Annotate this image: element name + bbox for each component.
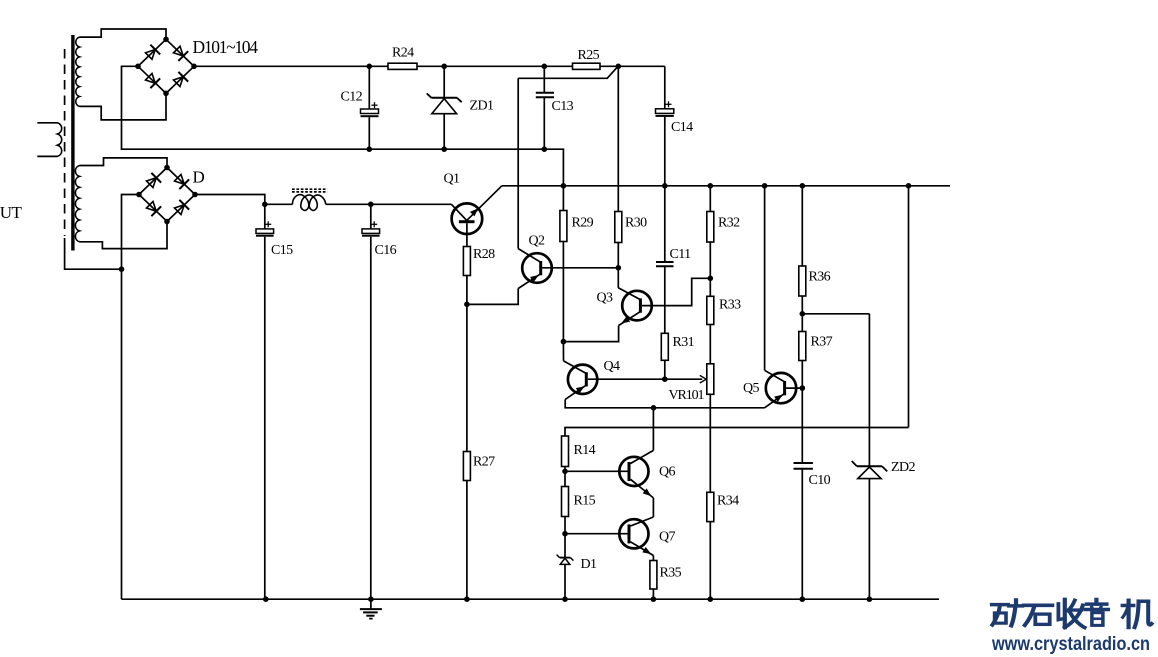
wire R35 to ground rail — [652, 589, 654, 599]
diode D103 (bottom-left) — [145, 73, 160, 88]
label R25 — [578, 48, 600, 63]
svg-text:Q3: Q3 — [597, 291, 614, 306]
wire Q3 emitter — [563, 326, 618, 342]
svg-text:Q4: Q4 — [604, 359, 621, 374]
transformer shield dashed line — [64, 49, 66, 236]
svg-text:Q1: Q1 — [444, 172, 461, 187]
label C14 — [671, 120, 693, 135]
capacitor C10 — [794, 463, 813, 599]
svg-text:C16: C16 — [375, 243, 397, 258]
label Q7 — [659, 530, 676, 545]
label D101~104 — [193, 37, 259, 57]
watermark char ji — [1123, 600, 1152, 627]
capacitor C12 — [361, 66, 379, 149]
wire R30 to Q2 base node — [617, 243, 619, 268]
wire bridge2 negative column — [122, 195, 140, 600]
capacitor C13 — [536, 66, 554, 149]
watermark char shi — [1024, 605, 1052, 625]
diode D1 — [557, 534, 574, 600]
resistor R28 — [463, 247, 470, 276]
wire ground rail — [122, 598, 940, 600]
wire R14 feed y427 — [565, 428, 909, 437]
wire Q6 collector — [652, 408, 654, 451]
node ground rail x370.9 — [368, 596, 374, 602]
wire R34 to ground rail — [709, 522, 711, 600]
node rail R36 junction — [800, 183, 806, 189]
node shield-ground junction — [119, 266, 125, 272]
svg-text:R36: R36 — [809, 270, 831, 285]
svg-text:R15: R15 — [574, 494, 596, 509]
svg-text:R27: R27 — [473, 455, 495, 470]
wire R29 to node341 — [562, 242, 564, 342]
transistor Q1 — [451, 186, 501, 247]
node rail R32 junction — [708, 183, 714, 189]
label Q3 — [597, 291, 614, 306]
label R28 — [473, 247, 495, 262]
node C13 bottom — [542, 146, 548, 152]
svg-text:ZD2: ZD2 — [891, 460, 915, 475]
resistor R34 — [707, 492, 714, 521]
wire node to C10 — [801, 388, 803, 463]
wire choke to Q1 base — [326, 203, 452, 205]
wire Q7 emitter to R35 — [652, 556, 654, 561]
label R35 — [660, 566, 682, 581]
wire bridge1 negative: left vertex to y149 rail then down to main rail — [122, 66, 564, 186]
svg-text:R28: R28 — [473, 247, 495, 262]
svg-text:OUT: OUT — [0, 203, 23, 222]
capacitor C14 — [656, 66, 674, 186]
node R36/R37/ZD2 — [800, 311, 806, 317]
label Q2 — [529, 234, 546, 249]
wire top positive rail y66 — [194, 65, 665, 67]
node C15 top — [262, 202, 268, 208]
resistor R35 — [650, 561, 657, 590]
node Q6-collector tap — [651, 405, 657, 411]
wire Q4 emitter — [565, 399, 764, 407]
label VR101 — [669, 388, 705, 403]
resistor R37 — [799, 332, 806, 361]
capacitor C15 — [256, 204, 274, 599]
label R31 — [673, 335, 695, 350]
wire rail to R32 — [709, 186, 711, 212]
wire R37 to Q5 base node — [801, 361, 803, 389]
label R27 — [473, 455, 495, 470]
svg-text:Q6: Q6 — [659, 465, 676, 480]
label R30 — [625, 216, 647, 231]
label ZD1 — [470, 99, 494, 114]
label Q4 — [604, 359, 621, 374]
node bridge2 R — [192, 192, 198, 198]
node bridge2 B — [164, 219, 170, 225]
potentiometer VR101 — [707, 364, 714, 395]
capacitor C11 — [656, 186, 674, 333]
diode D102 (top-right) — [173, 46, 188, 61]
svg-text:R35: R35 — [660, 566, 682, 581]
node R32/R33/Q3-base — [708, 276, 714, 282]
wire rail to R36 — [801, 186, 803, 266]
resistor R33 — [707, 296, 714, 324]
resistor R31 — [661, 333, 668, 360]
label R33 — [719, 298, 741, 313]
label C16 — [375, 243, 397, 258]
diode D-d (bottom-right) — [174, 200, 189, 215]
node C12 bottom — [367, 146, 373, 152]
label Q5 — [743, 381, 760, 396]
svg-text:C15: C15 — [271, 243, 293, 258]
label R15 — [574, 494, 596, 509]
node rail right-column junction — [906, 183, 912, 189]
label D — [193, 168, 205, 187]
inductor choke L1 — [292, 195, 325, 211]
wire Q4 collector — [562, 342, 564, 361]
resistor R29 — [560, 211, 567, 242]
wire R31 to Q4 base node — [664, 360, 666, 379]
resistor R14 — [562, 436, 569, 467]
svg-text:D1: D1 — [581, 557, 598, 572]
label Q1 — [444, 172, 461, 187]
svg-text:R32: R32 — [718, 216, 740, 231]
svg-text:C10: C10 — [809, 473, 831, 488]
svg-text:R34: R34 — [717, 494, 739, 509]
node bridge1 R — [191, 64, 197, 70]
svg-text:R31: R31 — [673, 335, 695, 350]
node R29/Q3-emitter/Q4-collector — [561, 339, 567, 345]
transistor Q3 — [618, 288, 652, 326]
label C12 — [341, 90, 363, 105]
svg-text:R25: R25 — [578, 48, 600, 63]
watermark url text — [991, 634, 1150, 655]
transformer primary winding — [37, 123, 61, 157]
node Q4-base/R31/VR101-wiper — [662, 376, 668, 382]
watermark char kuang — [992, 600, 1022, 626]
resistor R24 — [388, 63, 417, 69]
node top wire C12 tap — [367, 64, 373, 70]
label R34 — [717, 494, 739, 509]
node bridge1 Lv — [135, 64, 141, 70]
transistor Q6 — [619, 450, 653, 498]
diode D-c (bottom-left) — [146, 201, 161, 216]
wire node to R15 — [564, 471, 566, 486]
wire node to R33 — [709, 278, 711, 296]
node ground rail x466.9 — [464, 596, 470, 602]
node R25 right junction — [616, 64, 622, 70]
resistor R30 — [615, 212, 622, 243]
ground symbol — [360, 599, 382, 618]
wire Q7 base — [565, 533, 628, 535]
svg-text:Q7: Q7 — [659, 530, 676, 545]
wire VR101 to R34 — [709, 394, 711, 492]
svg-text:R29: R29 — [572, 216, 594, 231]
wire R27 to ground rail — [466, 481, 468, 600]
resistor R15 — [562, 487, 569, 517]
wire C15 to choke — [265, 203, 293, 205]
node ground rail x265.8 — [263, 596, 269, 602]
diode D-b (top-right) — [174, 174, 189, 189]
node Q5-base/R37/C10 — [800, 385, 806, 391]
wire main rail y186 — [502, 185, 950, 187]
inductor choke core dashes — [292, 189, 327, 192]
diode D104 (bottom-right) — [173, 72, 188, 87]
svg-text:R30: R30 — [625, 216, 647, 231]
diode D-a (top-left) — [146, 173, 161, 188]
svg-text:www.crystalradio.cn: www.crystalradio.cn — [991, 634, 1150, 655]
node ground rail x710.3 — [708, 596, 714, 602]
wire Q2 base — [542, 267, 618, 269]
wire Q4 base — [588, 378, 665, 380]
wire Q5 collector column — [764, 186, 766, 370]
node top wire ZD1 tap — [441, 64, 447, 70]
svg-text:C12: C12 — [341, 90, 363, 105]
label R29 — [572, 216, 594, 231]
transistor Q5 — [765, 370, 797, 408]
svg-text:C11: C11 — [670, 247, 692, 262]
transformer secondary winding (top) — [76, 29, 166, 120]
label R37 — [811, 335, 833, 350]
watermark char shou — [1058, 599, 1084, 627]
wire Q6 base — [565, 470, 628, 472]
wire bridge2 output to C15 — [195, 195, 265, 205]
node ground rail x802.3 — [800, 596, 806, 602]
label C10 — [809, 473, 831, 488]
wire Q6 emitter to Q7 collector — [652, 498, 654, 517]
wire node to Q3 collector corner — [617, 268, 619, 288]
svg-text:C14: C14 — [671, 120, 693, 135]
label D1 — [581, 557, 598, 572]
label R24 — [392, 46, 414, 61]
wire down to R27 — [466, 304, 468, 451]
wire Q2-collector feed y78 — [518, 67, 618, 79]
svg-text:Q5: Q5 — [743, 381, 760, 396]
resistor R32 — [707, 212, 714, 243]
resistor R27 — [463, 452, 470, 481]
svg-text:D101~104: D101~104 — [193, 37, 259, 57]
node bridge1 B — [163, 91, 169, 97]
node ground rail x565 — [562, 596, 568, 602]
wire R25jct to R30 — [617, 66, 619, 211]
wire rail to R29 — [562, 186, 564, 211]
wire node to ZD2 column — [802, 313, 869, 315]
wire Q3 base — [642, 278, 710, 305]
shield ground wire — [65, 238, 122, 269]
node ground rail x653.4 — [651, 596, 657, 602]
label C11 — [670, 247, 692, 262]
zener diode ZD1 — [427, 66, 462, 149]
wire Q2 collector column — [517, 78, 519, 248]
label R32 — [718, 216, 740, 231]
bridge rectifier D diamond — [139, 168, 195, 222]
node ZD1 bottom — [441, 146, 447, 152]
watermark char yin — [1085, 600, 1108, 626]
wire R32 to node — [709, 242, 711, 278]
node bridge2 Lv — [136, 192, 142, 198]
node R14/R15/Q6-base — [562, 469, 568, 475]
wire rail right column — [908, 186, 910, 428]
svg-text:R24: R24 — [392, 46, 414, 61]
svg-text:C13: C13 — [552, 99, 574, 114]
svg-text:ZD1: ZD1 — [470, 99, 494, 114]
transformer T1 core — [71, 35, 74, 251]
svg-text:D: D — [193, 168, 205, 187]
transformer secondary winding (bottom) — [75, 158, 167, 249]
label C15 — [271, 243, 293, 258]
svg-text:R37: R37 — [811, 335, 833, 350]
label C13 — [552, 99, 574, 114]
label R14 — [574, 443, 596, 458]
svg-text:Q2: Q2 — [529, 234, 546, 249]
resistor R36 — [799, 266, 806, 296]
wire Q2 emitter to junction — [467, 289, 518, 305]
node C16 top — [368, 202, 374, 208]
node R15/D1/Q7-base — [562, 531, 568, 537]
label OUT — [0, 203, 23, 222]
node top wire C13 tap — [542, 64, 548, 70]
zener diode ZD2 — [852, 314, 888, 599]
node rail C14/C11 junction — [662, 183, 668, 189]
svg-text:VR101: VR101 — [669, 388, 705, 403]
wire R28 to node — [466, 276, 468, 305]
wire R15 to node — [564, 517, 566, 534]
label ZD2 — [891, 460, 915, 475]
wire Q5 base — [786, 387, 802, 389]
transistor Q2 — [518, 249, 552, 289]
resistor R25 — [573, 63, 601, 69]
wire R36 to node — [801, 296, 803, 314]
node ground rail x869.4 — [867, 596, 873, 602]
wire R33 to VR101 — [709, 325, 711, 364]
transistor Q7 — [619, 517, 653, 556]
node bridge1 T — [163, 37, 169, 43]
wire wiper arrow — [665, 375, 707, 383]
node rail R29 junction — [561, 183, 567, 189]
node Q1-emitter/Q2-emitter junction — [464, 302, 470, 308]
capacitor C16 — [362, 204, 380, 599]
svg-text:R33: R33 — [719, 298, 741, 313]
bridge rectifier D101~104 diamond — [138, 39, 194, 93]
diode D101 (top-left) — [145, 45, 160, 60]
svg-text:R14: R14 — [574, 443, 596, 458]
transistor Q4 — [564, 361, 598, 400]
node Q2-base/R30/Q3-collector — [616, 265, 622, 271]
label R36 — [809, 270, 831, 285]
wire node to R37 — [801, 314, 803, 332]
node rail Q5-collector junction — [762, 183, 768, 189]
wire R14 to node — [564, 467, 566, 472]
node bridge2 T — [164, 165, 170, 171]
label Q6 — [659, 465, 676, 480]
